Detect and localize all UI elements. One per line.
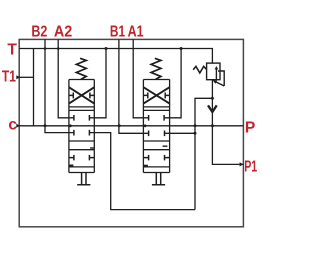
svg-text:A2: A2 — [54, 24, 73, 41]
valve2 tick right — [163, 145, 168, 147]
wire A2 line — [58, 39, 74, 117]
valve1 row1 port bars — [74, 115, 90, 121]
relief valve RV2 side ports — [143, 93, 169, 99]
relief valve RV2 X — [143, 87, 169, 103]
svg-text:T: T — [7, 41, 17, 58]
port arrow C — [16, 124, 20, 128]
svg-text:B1: B1 — [110, 24, 125, 41]
wire A1 line — [133, 39, 148, 117]
wire compensator feed down and P1 line — [212, 80, 243, 165]
spring RV1 — [76, 58, 86, 79]
wire T rail — [19, 49, 212, 64]
valve2 row3 ports — [143, 155, 169, 161]
node B1-rail — [118, 124, 121, 127]
node branch-rail — [194, 124, 197, 127]
node branch-row2 — [194, 132, 197, 135]
relief valve RV1 side ports — [69, 93, 94, 99]
port arrow T1 — [16, 75, 20, 79]
svg-text:P: P — [245, 120, 255, 137]
valve2 pedestal — [152, 173, 165, 185]
compensator internal arrow — [215, 69, 217, 80]
valve2 row1 port bars — [149, 115, 165, 121]
node valve1 edge rail — [69, 124, 72, 127]
wire tank drop section1 — [89, 49, 106, 118]
wire C-P rail — [19, 125, 243, 127]
svg-text:B2: B2 — [31, 24, 47, 41]
wire valve1 row2 right to bottom rail — [89, 133, 195, 210]
valve section 2 body sides — [143, 80, 169, 173]
spring RV2 — [151, 58, 161, 79]
node B2-rail — [44, 124, 47, 127]
valve1 dash left — [69, 165, 74, 167]
valve section 1 body sides — [69, 80, 94, 173]
spool box V2 horizontals — [143, 110, 169, 172]
wire T1 vertical — [33, 49, 35, 126]
node tankdrop1-T — [105, 47, 108, 50]
compensator pilot arrow — [216, 82, 224, 86]
relief valve RV1 X — [69, 87, 94, 103]
compensator valve box — [207, 63, 220, 80]
svg-text:T1: T1 — [2, 69, 16, 86]
compensator spring — [193, 66, 206, 73]
svg-text:P1: P1 — [244, 158, 257, 175]
svg-text:A1: A1 — [128, 24, 144, 41]
compensator pilot tab — [218, 71, 224, 86]
node check-rail — [211, 124, 214, 127]
valve1 tick right — [90, 147, 94, 149]
spool box V1 horizontals — [69, 110, 94, 172]
node valve2 edge rail — [144, 124, 147, 127]
node B2-T — [44, 47, 47, 50]
wire B2 line — [45, 39, 74, 132]
wire B1 line — [119, 39, 149, 133]
relief valve RV1 box — [69, 80, 94, 107]
node A2-T — [57, 47, 60, 50]
node tankdrop2-T — [180, 47, 183, 50]
valve1 row2 port bars — [74, 130, 90, 136]
junction dots — [44, 47, 214, 135]
enclosure border — [19, 39, 243, 226]
check valve — [208, 105, 217, 112]
valve2 row2 port bars — [149, 131, 165, 137]
wire valve2 row2 right — [165, 132, 196, 134]
valve2 dash left — [143, 165, 148, 167]
wire tank drop section2 — [165, 49, 182, 118]
wire T1 port line — [19, 76, 33, 78]
node compensator branch — [211, 97, 214, 100]
valve1 row3 ports — [69, 155, 94, 161]
valve1 pedestal — [77, 173, 90, 185]
relief valve RV2 box — [143, 80, 169, 107]
wire compensator branch left — [195, 98, 212, 209]
port arrow P1 — [240, 162, 244, 166]
svg-text:c: c — [8, 117, 17, 134]
